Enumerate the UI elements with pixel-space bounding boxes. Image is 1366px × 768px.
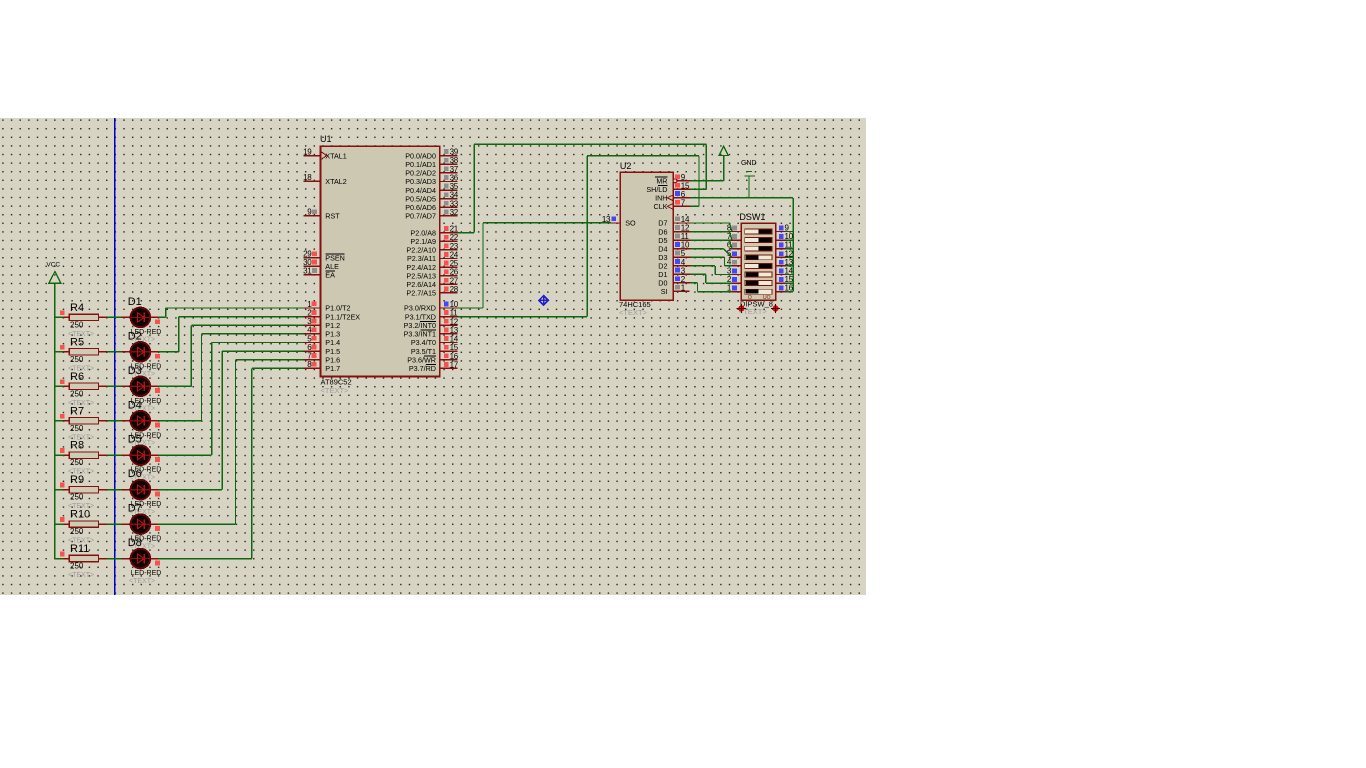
svg-text:LED-RED: LED-RED [131, 570, 162, 577]
svg-text:XTAL2: XTAL2 [325, 177, 346, 186]
svg-text:P0.7/AD7: P0.7/AD7 [405, 212, 436, 221]
svg-text:D2: D2 [128, 330, 142, 342]
svg-text:D1: D1 [128, 296, 142, 308]
svg-text:16: 16 [785, 284, 794, 293]
svg-text:P2.7/A15: P2.7/A15 [406, 289, 436, 298]
svg-text:250: 250 [70, 458, 84, 467]
svg-text:<TEXT>: <TEXT> [129, 578, 155, 585]
svg-text:RST: RST [325, 212, 340, 221]
svg-text:U2: U2 [620, 161, 632, 171]
svg-text:19: 19 [303, 147, 312, 156]
svg-text:D5: D5 [128, 434, 142, 446]
svg-text:R6: R6 [70, 371, 84, 383]
svg-text:17: 17 [450, 360, 459, 369]
svg-text:32: 32 [450, 208, 459, 217]
svg-text:O: O [748, 295, 752, 301]
svg-text:P3.7/RD: P3.7/RD [409, 364, 436, 373]
svg-text:28: 28 [450, 285, 459, 294]
svg-text:U1: U1 [320, 134, 332, 144]
svg-text:250: 250 [70, 527, 84, 536]
svg-text:UO: UO [763, 295, 771, 301]
svg-text:<TEXT>: <TEXT> [321, 386, 350, 395]
svg-text:VCC: VCC [46, 261, 60, 268]
svg-text:P1.7: P1.7 [325, 364, 340, 373]
svg-text:D7: D7 [128, 503, 142, 515]
svg-text:GND: GND [741, 160, 757, 167]
svg-text:250: 250 [70, 493, 84, 502]
svg-text:13: 13 [602, 215, 611, 224]
svg-text:250: 250 [70, 424, 84, 433]
svg-text:250: 250 [70, 389, 84, 398]
svg-text:<TEXT>: <TEXT> [619, 308, 648, 317]
svg-text:R5: R5 [70, 336, 84, 348]
svg-text:<TEXT>: <TEXT> [68, 572, 94, 579]
svg-text:D4: D4 [128, 399, 142, 411]
svg-text:R8: R8 [70, 440, 84, 452]
svg-text:SO: SO [625, 219, 636, 228]
svg-text:250: 250 [70, 562, 84, 571]
svg-text:D8: D8 [128, 537, 142, 549]
svg-text:XTAL1: XTAL1 [325, 151, 346, 160]
svg-text:R10: R10 [70, 509, 90, 521]
svg-text:DSW1: DSW1 [739, 212, 765, 222]
svg-text:D3: D3 [128, 365, 142, 377]
svg-text:250: 250 [70, 355, 84, 364]
svg-text:D6: D6 [128, 468, 142, 480]
svg-text:SI: SI [661, 287, 668, 296]
svg-text:R4: R4 [70, 302, 84, 314]
svg-text:R9: R9 [70, 474, 84, 486]
svg-text:18: 18 [303, 173, 312, 182]
svg-text:31: 31 [303, 267, 312, 276]
svg-text:CLK: CLK [654, 202, 668, 211]
svg-text:250: 250 [70, 320, 84, 329]
svg-text:EA: EA [325, 271, 335, 280]
svg-text:R7: R7 [70, 405, 84, 417]
svg-text:R11: R11 [70, 543, 89, 555]
